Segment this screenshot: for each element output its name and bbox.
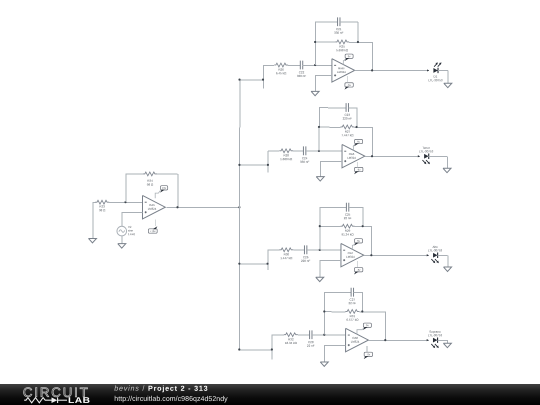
svg-text:LAB: LAB <box>68 396 91 405</box>
svg-text:http://circuitlab.com/c986qz4d: http://circuitlab.com/c986qz4d52ndy <box>114 395 228 403</box>
svg-text:bevins / Project 2 - 313: bevins / Project 2 - 313 <box>114 384 208 393</box>
